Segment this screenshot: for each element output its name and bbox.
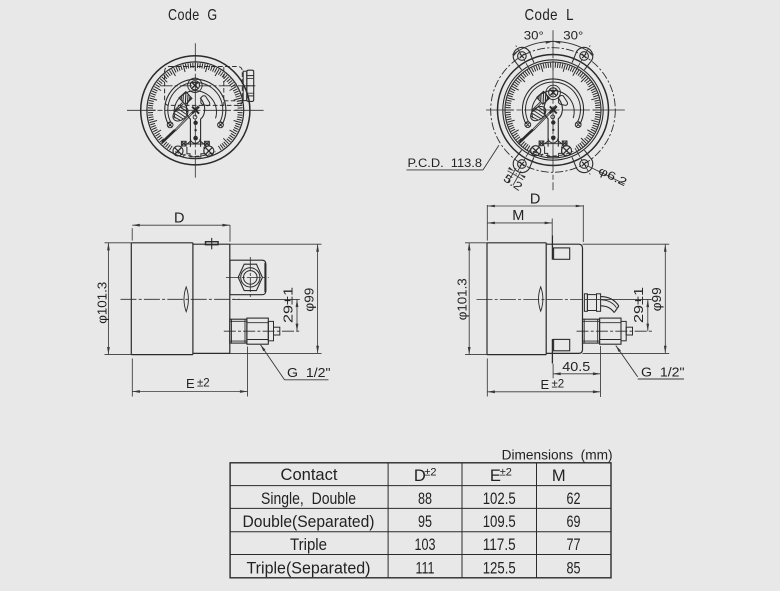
svg-text:69: 69 bbox=[567, 513, 581, 531]
svg-text:P.C.D. 113.8: P.C.D. 113.8 bbox=[408, 158, 483, 170]
Code L bezel ring circle bbox=[503, 60, 603, 160]
Code L front view - crosshair centerlines bbox=[552, 30, 554, 190]
Code G bezel outer circle bbox=[141, 56, 250, 165]
svg-text:103: 103 bbox=[415, 536, 436, 554]
svg-text:Code L: Code L bbox=[525, 7, 575, 24]
dimension &#966;101.3 (left) bbox=[465, 242, 487, 244]
Code G connector centre line bbox=[161, 85, 257, 87]
G 1/2 thread label with leader bbox=[616, 346, 621, 353]
Code L mounting P.C.D. circle (dash-dot) bbox=[491, 48, 616, 173]
dimension &#966;101.3 (left) bbox=[105, 242, 132, 244]
dimension &#966;99 (right) bbox=[583, 243, 670, 245]
Code L adjustment screw bbox=[549, 88, 558, 97]
dimension D (top) bbox=[486, 205, 488, 241]
Code L bottom-left mounting lug bbox=[513, 158, 530, 173]
case fill hole slot bbox=[184, 287, 188, 312]
main centre line bbox=[477, 298, 584, 300]
svg-text:φ99: φ99 bbox=[650, 287, 664, 311]
svg-text:117.5: 117.5 bbox=[483, 536, 516, 554]
right side view - rear case bbox=[546, 244, 582, 353]
svg-text:Triple: Triple bbox=[290, 536, 327, 554]
Code G hidden rear case (dashed rounded rect) bbox=[165, 67, 243, 106]
svg-text:30°: 30° bbox=[563, 31, 583, 43]
pressure connection centre line bbox=[577, 330, 653, 332]
svg-text:Triple(Separated): Triple(Separated) bbox=[247, 559, 371, 577]
main centre line bbox=[121, 298, 241, 300]
svg-text:G 1/2": G 1/2" bbox=[641, 365, 685, 380]
svg-text:±2: ±2 bbox=[424, 467, 436, 479]
right side view - gauge case bbox=[487, 243, 546, 355]
svg-text:±2: ±2 bbox=[500, 467, 512, 479]
svg-text:M: M bbox=[552, 467, 566, 485]
&#966;6.2 hole label with leader bbox=[588, 166, 625, 184]
svg-text:D: D bbox=[174, 210, 184, 226]
Code G bezel inner circle bbox=[147, 62, 244, 159]
svg-text:40.5: 40.5 bbox=[562, 359, 590, 374]
svg-text:φ101.3: φ101.3 bbox=[96, 282, 110, 324]
svg-text:85: 85 bbox=[567, 559, 581, 577]
svg-text:62: 62 bbox=[567, 490, 581, 508]
svg-text:95: 95 bbox=[418, 513, 432, 531]
svg-text:125.5: 125.5 bbox=[483, 559, 516, 577]
pressure connection hex nut bbox=[600, 318, 621, 344]
dimension E&#177;2 (bottom) bbox=[131, 359, 133, 397]
Code L top-left lug centre line bbox=[516, 46, 531, 72]
pressure connection hex nut bbox=[247, 318, 268, 344]
bottom mounting bracket bbox=[551, 339, 553, 364]
junction box crosshair bbox=[226, 276, 269, 278]
svg-text:G 1/2": G 1/2" bbox=[287, 365, 331, 380]
pressure connection shoulder bbox=[268, 321, 273, 340]
pressure connection thread bbox=[583, 319, 600, 343]
dimension 29&#177;1 bbox=[585, 298, 652, 300]
svg-text:Code G: Code G bbox=[168, 7, 218, 24]
pressure connection tip bbox=[274, 327, 280, 335]
svg-text:77: 77 bbox=[567, 536, 581, 554]
pressure connection shoulder bbox=[621, 321, 626, 340]
zero adjust screw on top bbox=[206, 242, 219, 245]
Code G internal contact mechanism bbox=[161, 79, 226, 157]
cable bbox=[601, 297, 619, 306]
svg-text:88: 88 bbox=[418, 490, 432, 508]
svg-text:109.5: 109.5 bbox=[483, 513, 516, 531]
svg-text:D: D bbox=[530, 191, 540, 207]
svg-text:E: E bbox=[541, 377, 550, 392]
Code G front view - crosshair centerlines bbox=[194, 43, 196, 177]
dimension &#966;99 (right) bbox=[230, 243, 322, 245]
svg-text:29±1: 29±1 bbox=[632, 287, 646, 323]
Code L bottom-right lug centre line bbox=[575, 148, 590, 174]
Code L dial tick ring bbox=[506, 63, 601, 150]
Code L bottom-left lug centre line bbox=[516, 148, 531, 174]
G 1/2 thread label with leader bbox=[261, 345, 266, 352]
svg-text:E: E bbox=[186, 376, 195, 391]
Code L internal contact mechanism bbox=[519, 79, 584, 157]
pressure connection tip bbox=[626, 327, 632, 335]
svg-text:30°: 30° bbox=[524, 31, 544, 43]
dimension D (top) bbox=[131, 228, 133, 240]
pressure connection thread bbox=[230, 319, 247, 343]
svg-text:φ99: φ99 bbox=[302, 288, 316, 312]
left side view - rear case bbox=[193, 244, 230, 353]
Code G hidden connector lines (dashed) bbox=[223, 67, 225, 105]
angular dimension 30&#176; right arc bbox=[551, 41, 590, 52]
Code L top-right mounting lug bbox=[576, 47, 593, 62]
svg-text:M: M bbox=[512, 208, 524, 224]
dimension M bbox=[551, 219, 553, 236]
left side view - gauge case bbox=[131, 243, 193, 355]
Code L front flange outer circle bbox=[498, 55, 609, 166]
dimension 40.5 bbox=[552, 364, 554, 379]
5.2 lug width dimension bbox=[513, 171, 521, 185]
Code G adjustment screw bbox=[190, 81, 199, 90]
Code G side connector profile bbox=[243, 71, 247, 100]
angular dimension 30&#176; left arc bbox=[516, 41, 555, 52]
svg-text:102.5: 102.5 bbox=[483, 490, 516, 508]
junction box gland hexagon bbox=[238, 264, 262, 290]
dimension 29&#177;1 bbox=[232, 298, 300, 300]
svg-text:Single, Double: Single, Double bbox=[261, 490, 356, 508]
Code G dial tick ring bbox=[148, 63, 243, 150]
junction box gland circles bbox=[241, 268, 260, 287]
svg-text:Double(Separated): Double(Separated) bbox=[243, 513, 375, 531]
svg-text:111: 111 bbox=[416, 559, 435, 577]
svg-text:Dimensions (mm): Dimensions (mm) bbox=[502, 447, 613, 462]
junction box bbox=[230, 260, 266, 295]
dimensions table grid bbox=[230, 463, 611, 578]
pressure connection centre line bbox=[224, 330, 300, 332]
svg-text:Contact: Contact bbox=[281, 466, 338, 484]
dimension E&#177;2 (bottom) bbox=[486, 359, 488, 397]
Code L top-right lug centre line bbox=[575, 46, 590, 72]
cable gland bbox=[584, 294, 587, 312]
svg-text:29±1: 29±1 bbox=[281, 287, 295, 323]
svg-text:±2: ±2 bbox=[197, 378, 210, 390]
case fill hole slot bbox=[539, 287, 543, 311]
Code L top-left mounting lug bbox=[513, 47, 530, 62]
Code L dial circle bbox=[505, 62, 601, 158]
svg-text:φ101.3: φ101.3 bbox=[455, 278, 469, 320]
svg-text:±2: ±2 bbox=[552, 379, 565, 391]
Code L bottom-right mounting lug bbox=[576, 158, 593, 173]
top mounting bracket bbox=[551, 235, 553, 260]
